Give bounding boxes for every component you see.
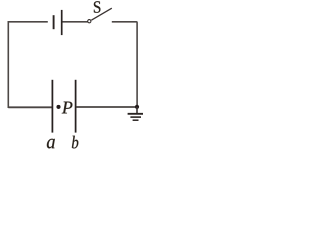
node P dot: [56, 105, 60, 109]
wire: battery to switch: [63, 21, 88, 23]
battery (cell): [54, 10, 62, 35]
wire: bottom-left horizontal to plate a: [8, 106, 52, 108]
wire: switch to top-right corner and right vertical side: [112, 22, 137, 107]
wire: plate b to ground junction: [76, 106, 137, 108]
wire: top-left horizontal to battery: [8, 21, 48, 23]
ground: [128, 107, 144, 120]
switch S: [88, 1, 112, 23]
capacitor plate a: [51, 80, 53, 133]
capacitor plate b: [75, 80, 77, 133]
label b: [72, 136, 78, 149]
label a: [47, 139, 55, 149]
wire: left vertical side: [7, 21, 9, 108]
label P: [62, 102, 73, 114]
junction dot: [135, 105, 139, 109]
